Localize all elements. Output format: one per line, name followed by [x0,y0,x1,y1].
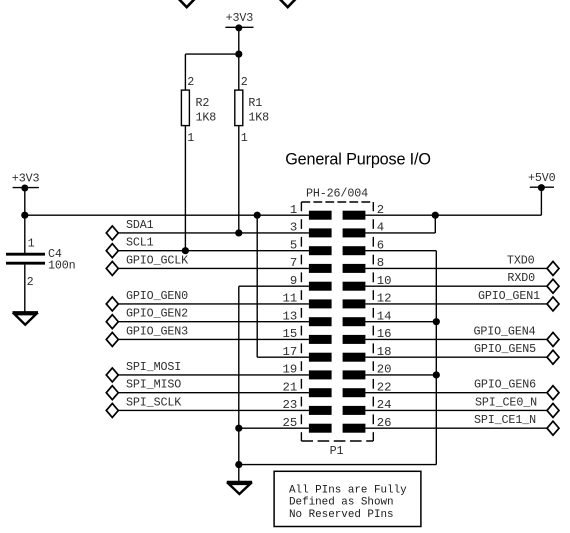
node SCL1 connector diamond [106,244,118,258]
pin 26 pad [343,424,366,433]
svg-text:100n: 100n [48,259,76,273]
pin 10 pad [343,282,366,291]
wire GPIO_GEN3 [118,338,309,340]
wire SPI_MOSI [118,374,309,376]
node SDA1 connector diamond [106,226,118,240]
svg-text:14: 14 [377,309,392,323]
svg-text:26: 26 [377,416,392,430]
junction R2-SCL1 [182,247,189,254]
node SPI_MOSI connector diamond [106,368,118,382]
pin 1 pad [309,211,332,220]
svg-text:SPI_SCLK: SPI_SCLK [126,395,181,409]
svg-text:+5V0: +5V0 [528,171,556,185]
svg-text:1: 1 [28,237,35,251]
node GPIO_GEN3 connector diamond [106,332,118,346]
wire GPIO_GEN4 [365,338,547,340]
svg-text:8: 8 [377,256,384,270]
node GPIO_GEN0 connector diamond [106,297,118,311]
svg-text:+3V3: +3V3 [226,11,254,25]
wire TXD0 [365,267,547,269]
pin 18 pad [343,353,366,362]
wire ground return horizontal [239,464,436,466]
junction pin 25 ground [235,425,242,432]
svg-text:R1: R1 [248,96,262,110]
svg-text:SCL1: SCL1 [126,236,154,250]
wire pin 20 stub [365,374,436,376]
svg-text:TXD0: TXD0 [507,253,535,267]
svg-text:1K8: 1K8 [196,110,217,124]
connector P1 dashed outline [301,202,373,441]
junction left 3V3 rail [21,212,28,219]
svg-text:24: 24 [377,398,392,412]
wire SPI_SCLK [118,409,309,411]
wire ground rail vertical [238,286,240,482]
pin 25 pad [309,424,332,433]
svg-text:18: 18 [377,345,392,359]
svg-text:General Purpose I/O: General Purpose I/O [285,151,431,169]
ground symbol (bottom) [227,482,252,494]
svg-text:22: 22 [377,380,392,394]
wire +3V3 top vertical [238,28,240,90]
node SPI_CE1_N connector diamond [547,421,559,435]
svg-text:SPI_MOSI: SPI_MOSI [126,360,181,374]
svg-text:GPIO_GCLK: GPIO_GCLK [126,253,188,267]
node SPI_SCLK connector diamond [106,403,118,417]
wire SPI_CE1_N [365,427,547,429]
svg-text:6: 6 [377,238,384,252]
svg-text:GPIO_GEN1: GPIO_GEN1 [478,289,540,303]
svg-text:GPIO_GEN4: GPIO_GEN4 [473,324,535,338]
pin 7 pad [309,264,332,273]
wire pin 6 stub [365,250,436,252]
resistor R2 body [181,90,189,126]
wire R2 top vertical [184,54,186,90]
svg-text:PH-26/004: PH-26/004 [306,187,368,201]
svg-text:2: 2 [241,75,248,89]
svg-text:1K8: 1K8 [248,110,269,124]
pin 19 pad [309,370,332,379]
svg-text:2: 2 [187,75,194,89]
svg-text:GPIO_GEN3: GPIO_GEN3 [126,324,188,338]
wire pin 14 stub [365,321,436,323]
svg-text:SPI_CE1_N: SPI_CE1_N [474,413,536,427]
wire 3V3 branch vertical [256,215,258,357]
svg-text:25: 25 [283,416,298,430]
node GPIO_GEN1 connector diamond [547,297,559,311]
pin 9 pad [309,282,332,291]
svg-text:15: 15 [283,327,298,341]
node GPIO_GEN4 connector diamond [547,332,559,346]
power symbol +5V0 [530,184,554,191]
junction ground return [235,461,242,468]
node GPIO_GEN2 connector diamond [106,315,118,329]
node TXD0 connector diamond [547,261,559,275]
node GPIO_GCLK connector diamond [106,261,118,275]
junction 3V3 branch [254,212,261,219]
svg-text:No Reserved PIns: No Reserved PIns [289,509,394,521]
note box [274,471,421,526]
svg-text:2: 2 [27,275,34,289]
wire GPIO_GEN2 [118,321,309,323]
wire +5V0 vertical [540,188,542,216]
wire 3V3 rail to pin 1 [25,214,309,216]
svg-text:+3V3: +3V3 [12,171,40,185]
wire pin 4 riser [434,215,436,233]
wire R2 bottom to SCL1 [184,126,186,251]
svg-text:3: 3 [290,221,297,235]
ground symbol (left) [13,313,39,325]
pin 22 pad [343,388,366,397]
junction R1-SDA1 [235,229,242,236]
wire pin 25 stub [239,427,309,429]
pin 6 pad [343,246,366,255]
junction pin 20 ground [433,371,440,378]
svg-text:19: 19 [283,363,298,377]
pin 3 pad [309,228,332,237]
pin 24 pad [343,406,366,415]
svg-text:2: 2 [377,203,384,217]
svg-text:1: 1 [290,203,297,217]
node GPIO_GEN6 connector diamond [547,386,559,400]
pin 8 pad [343,264,366,273]
svg-text:17: 17 [283,345,298,359]
pin 17 pad [309,353,332,362]
junction 5V pin2/pin4 [432,212,439,219]
pin 4 pad [343,228,366,237]
pin 15 pad [309,335,332,344]
svg-text:21: 21 [283,380,298,394]
wire +3V3 left vertical [24,188,26,253]
svg-text:16: 16 [377,327,392,341]
node SPI_CE0_N connector diamond [547,403,559,417]
pin 20 pad [343,370,366,379]
capacitor C4 bottom plate [6,262,45,265]
svg-text:1: 1 [187,131,194,145]
svg-text:GPIO_GEN5: GPIO_GEN5 [474,342,536,356]
pin 2 pad [343,211,366,220]
svg-text:SPI_MISO: SPI_MISO [126,378,181,392]
svg-text:1: 1 [241,131,248,145]
wire SCL1 [118,250,309,252]
wire 3V3 branch to pin 17 [257,356,309,358]
svg-text:All PIns are Fully: All PIns are Fully [289,485,407,497]
wire R1 bottom to SDA1 [238,126,240,233]
wire C4 bottom to ground [24,265,26,312]
pin 21 pad [309,388,332,397]
wire RXD0 [365,285,547,287]
pin 16 pad [343,335,366,344]
node SPI_MISO connector diamond [106,386,118,400]
wire pin 9 to ground rail [239,285,309,287]
wire pin 2 to +5V0 [365,214,541,216]
junction pin 14 ground [433,318,440,325]
svg-text:20: 20 [377,363,392,377]
svg-text:Defined as Shown: Defined as Shown [289,497,394,509]
node RXD0 connector diamond [547,279,559,293]
svg-text:4: 4 [377,221,384,235]
svg-text:7: 7 [290,256,297,270]
svg-text:10: 10 [377,274,392,288]
pin 14 pad [343,317,366,326]
svg-text:SDA1: SDA1 [126,218,154,232]
wire pin 4 stub [365,232,435,234]
svg-text:P1: P1 [330,444,344,458]
pin 12 pad [343,299,366,308]
resistor R1 body [235,90,243,126]
pin 11 pad [309,299,332,308]
svg-text:13: 13 [283,309,298,323]
wire right ground vertical [435,251,437,465]
pin 23 pad [309,406,332,415]
node GPIO_GEN5 connector diamond [547,350,559,364]
pin 13 pad [309,317,332,326]
power symbol +3V3 (top) [225,24,253,31]
wire SPI_MISO [118,392,309,394]
wire GPIO_GEN6 [365,392,547,394]
svg-text:GPIO_GEN2: GPIO_GEN2 [126,307,188,321]
cropped connector diamond (top right) [279,0,296,7]
pin 5 pad [309,246,332,255]
capacitor C4 top plate [6,253,45,256]
wire GPIO_GEN0 [118,303,309,305]
svg-text:5: 5 [290,238,297,252]
wire SPI_CE0_N [365,409,547,411]
svg-text:R2: R2 [196,96,210,110]
wire GPIO_GEN1 [365,303,547,305]
svg-text:GPIO_GEN6: GPIO_GEN6 [474,378,536,392]
wire GPIO_GCLK [118,267,309,269]
svg-text:GPIO_GEN0: GPIO_GEN0 [126,289,188,303]
svg-text:SPI_CE0_N: SPI_CE0_N [475,395,537,409]
junction R1/R2 feed [235,51,242,58]
svg-text:11: 11 [283,292,298,306]
cropped connector diamond (top left) [178,0,195,7]
wire GPIO_GEN5 [365,356,547,358]
wire SDA1 [118,232,309,234]
svg-text:12: 12 [377,292,392,306]
power symbol +3V3 (left) [13,185,39,192]
svg-text:RXD0: RXD0 [507,271,535,285]
wire R2 feed horizontal [185,53,238,55]
svg-text:9: 9 [290,274,297,288]
svg-text:23: 23 [283,398,298,412]
